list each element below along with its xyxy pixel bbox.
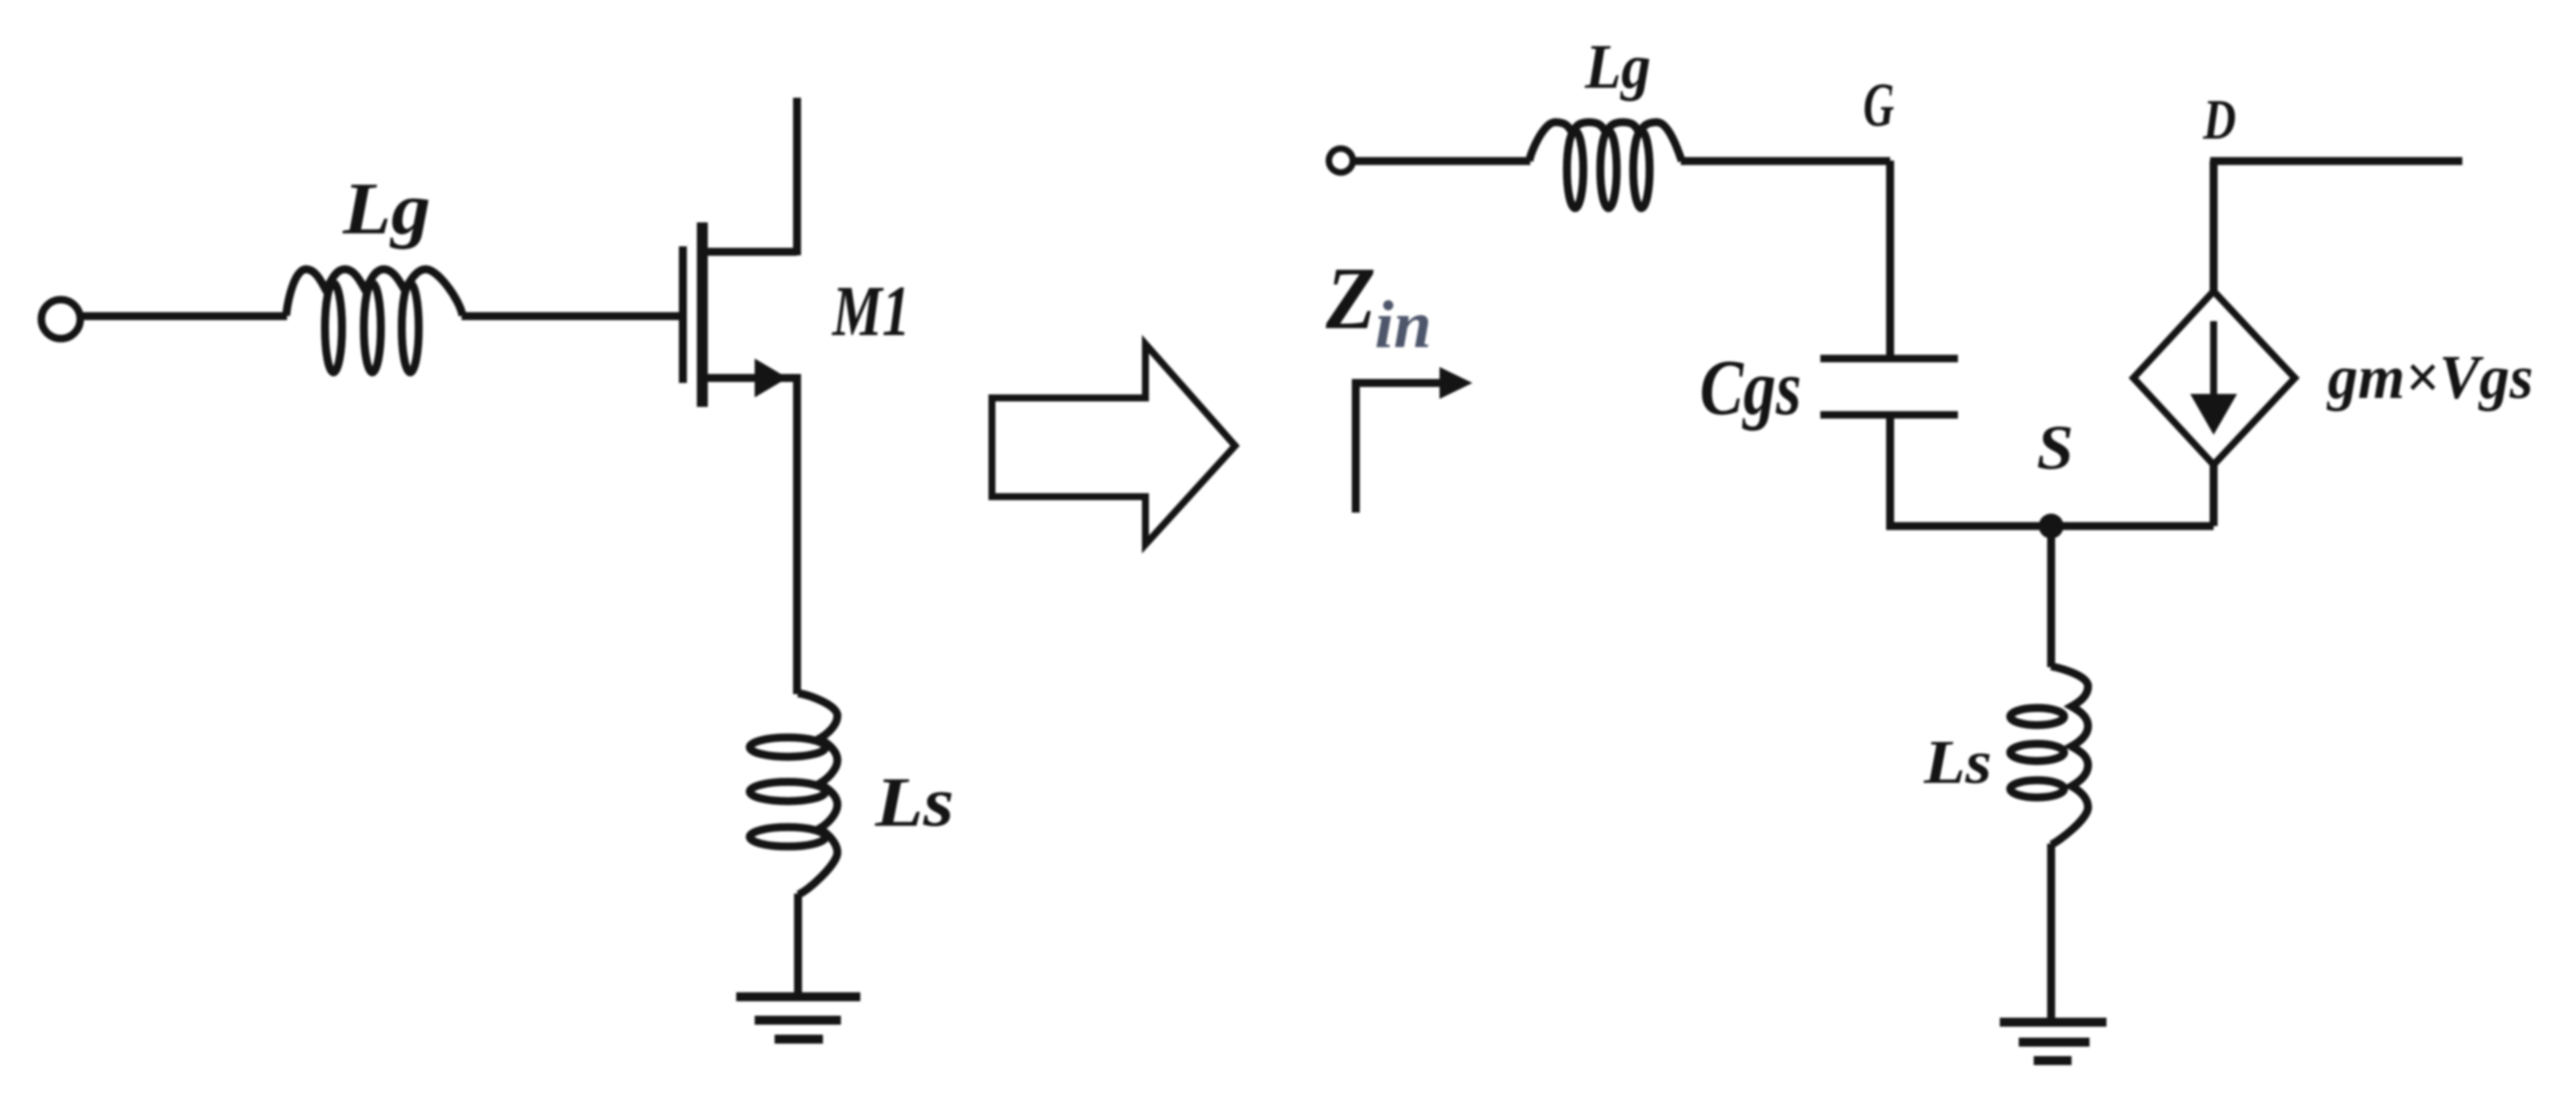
- svg-text:in: in: [1375, 286, 1432, 362]
- svg-text:gm×Vgs: gm×Vgs: [2326, 344, 2533, 412]
- svg-text:Z: Z: [1325, 250, 1376, 348]
- svg-text:D: D: [2202, 89, 2236, 152]
- svg-text:M1: M1: [831, 271, 910, 351]
- svg-text:Ls: Ls: [1923, 729, 1992, 797]
- svg-text:Cgs: Cgs: [1700, 345, 1801, 432]
- svg-text:Ls: Ls: [874, 764, 954, 842]
- svg-text:Lg: Lg: [1584, 32, 1651, 102]
- svg-text:S: S: [2037, 413, 2074, 483]
- svg-text:G: G: [1863, 72, 1894, 140]
- svg-text:Lg: Lg: [342, 169, 431, 250]
